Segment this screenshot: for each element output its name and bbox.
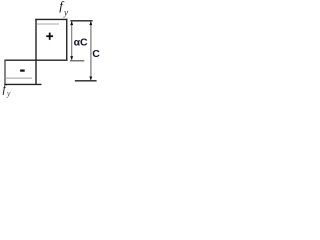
node: alpha-C upper arrowhead — [70, 21, 73, 25]
wire: neutral-axis dimension extension line — [70, 60, 84, 62]
wire: top dimension extension line — [70, 20, 92, 22]
wire: bottom edge of tension block — [4, 83, 41, 85]
wire: main shared vertical edge at x=36 — [35, 19, 37, 85]
wire: dimension line alpha-C shaft — [71, 22, 73, 60]
node: C upper arrowhead — [89, 21, 92, 25]
node: gray reference line inside compression block — [37, 23, 59, 25]
wire: bottom dimension extension line — [75, 80, 97, 82]
wire: neutral axis horizontal line — [4, 59, 67, 61]
node: alpha-C lower arrowhead — [70, 56, 73, 60]
wire: dimension line C shaft — [90, 22, 92, 80]
node: minus sign in tension block — [20, 69, 25, 71]
node: C lower arrowhead — [89, 77, 92, 81]
svg-text:y: y — [6, 89, 11, 98]
wire: top edge of compression block — [35, 18, 67, 20]
svg-text:C: C — [92, 48, 100, 60]
wire: right edge of compression block — [66, 19, 68, 61]
node: gray reference line inside tension block — [5, 77, 32, 79]
wire: left edge of tension block — [4, 60, 6, 85]
node: plus sign in compression block — [46, 33, 53, 40]
svg-text:αC: αC — [74, 37, 88, 49]
svg-text:y: y — [63, 7, 68, 17]
